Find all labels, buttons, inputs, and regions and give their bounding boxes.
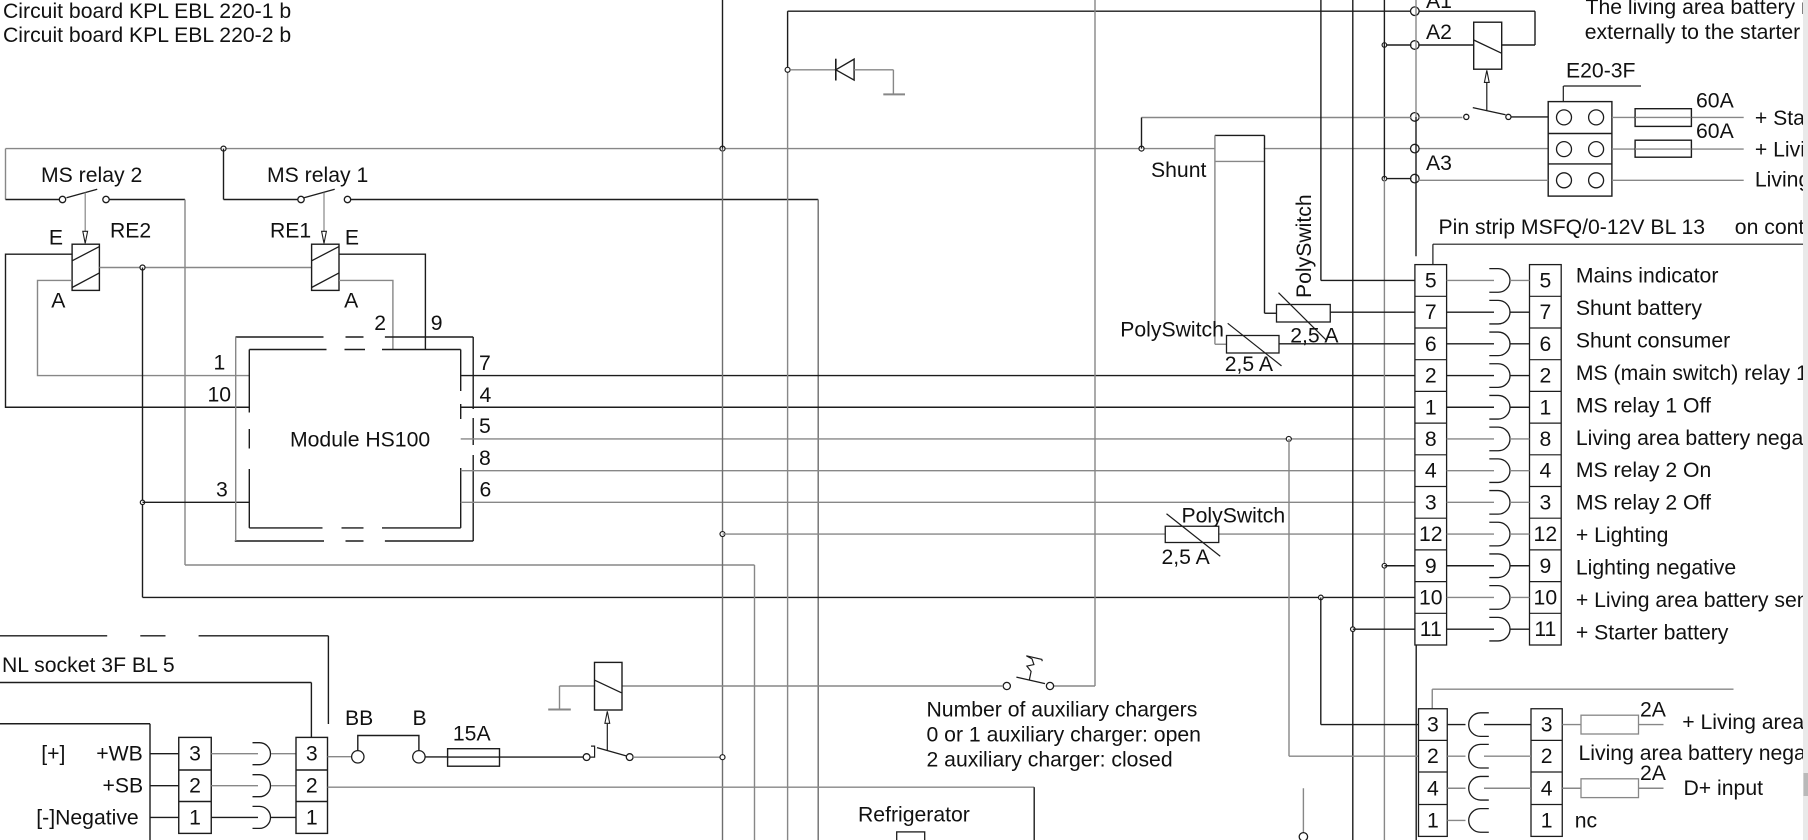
junction diode node [785,67,790,72]
wire: switch to E20 block row1 [1511,116,1548,118]
junction on RE link at x=142.5 [140,265,145,270]
pin strip row 7 connector arc [1489,300,1510,324]
svg-text:A1: A1 [1426,0,1452,13]
switch MS relay 2 blade [67,189,98,198]
wire: NL row to connector arc [211,753,258,755]
switch MS relay 1 left contact [298,196,304,202]
svg-text:9: 9 [1425,555,1437,578]
svg-text:6: 6 [480,478,492,501]
linkage coil K2 to 15A switch [605,711,610,723]
aux chargers switch blade [1016,677,1045,684]
svg-text:A3: A3 [1426,152,1452,175]
svg-text:1: 1 [1541,809,1553,832]
svg-text:[-]Negative: [-]Negative [36,806,138,829]
svg-text:RE2: RE2 [110,220,151,243]
NL connector arc [253,806,271,828]
svg-text:5: 5 [479,415,491,438]
polyswitch PS1 (shunt battery) [1277,305,1331,323]
wire: MS relay 2 output to x=185 [109,199,185,201]
wire: x=142.5 vertical from RE link to row 10 [142,268,144,598]
aux chargers switch right contact [1046,682,1053,689]
E20-3F leader line [1564,85,1642,87]
wire: module pin 5 to pin strip cell 8 (gray) [461,438,1415,440]
svg-text:MS relay 2 Off: MS relay 2 Off [1576,492,1711,515]
bottom connector row 2 arc [1469,744,1489,768]
wire: vertical x=818 down to bottom [817,200,819,840]
svg-text:externally to the starter: externally to the starter [1585,21,1801,44]
disconnect switch right contact [1506,114,1511,119]
svg-text:1: 1 [1539,396,1551,419]
wire: vertical x=754.5 down to bottom (gray) [754,565,756,840]
svg-text:11: 11 [1420,618,1442,641]
svg-text:2: 2 [374,312,386,335]
15A switch left contact [583,754,590,761]
svg-text:RE1: RE1 [270,220,311,243]
junction row12 takeoff on x=722.5 [720,532,725,537]
15A switch blade [597,748,627,756]
pin strip row 8 arc to right cell [1510,438,1530,440]
wire: B to 15A fuse [425,756,448,758]
module outer board box (dashed) [235,337,473,541]
svg-text:Module HS100: Module HS100 [290,429,430,452]
wire: MS relay 2 feed y=199.5 [6,199,60,201]
svg-text:15A: 15A [453,723,492,746]
svg-text:3: 3 [306,743,318,766]
relay RE1 coil box [312,244,339,290]
relay coil K2 (15A circuit) [595,662,623,710]
svg-text:6: 6 [1425,333,1437,356]
wire: vertical x=1352.8 (starter battery) [1352,0,1354,840]
pin strip row 12 connector arc [1489,522,1510,546]
shunt box [1215,134,1265,136]
svg-text:D+ input: D+ input [1684,777,1764,800]
svg-text:4: 4 [1425,460,1437,483]
svg-text:2: 2 [1427,745,1439,768]
svg-text:+ Lighting: + Lighting [1576,524,1668,547]
svg-text:[+]: [+] [41,743,65,766]
NL connector arc [253,743,271,765]
bottom connector row 2 arc-to-cell wire [1484,755,1531,757]
wire: fuse to 15A switch [500,756,584,758]
svg-text:60A: 60A [1696,89,1735,112]
svg-text:10: 10 [208,383,232,406]
pin strip row 11 arc to right cell [1510,628,1530,630]
shunt right leg (black) [1264,135,1266,313]
BB-B jumper bracket [358,736,419,751]
pin strip row 7 arc to right cell [1510,311,1530,313]
NL connector arc [253,775,271,797]
wire: vertical x=787.6 top black segment [787,11,789,70]
svg-text:+SB: +SB [103,775,144,798]
wire: vertical x=722.5 from top to 15A switch [722,0,724,149]
wire: x=1320.8 down to bottom connector cell3 [1320,597,1322,724]
wire: PS2 to cell 6 [1279,343,1415,345]
pin strip row 4 arc to right cell [1510,470,1530,472]
fuse 15A [448,749,500,767]
wire: arc to NL right column [271,753,296,755]
wire: MS relay 1 feed [224,199,298,201]
svg-text:6: 6 [1539,333,1551,356]
pin strip row 2 connector arc [1489,364,1510,388]
NL socket left pin column [179,737,212,833]
svg-text:12: 12 [1534,523,1558,546]
refrigerator fuse stub [897,832,925,840]
svg-text:3: 3 [1427,714,1439,737]
svg-text:5: 5 [1539,269,1551,292]
wire: NL row to connector arc [211,816,258,818]
svg-text:Mains indicator: Mains indicator [1576,264,1719,287]
wire: module pin 6 to pin strip cell 3 (gray) [461,501,1415,503]
svg-text:Circuit board KPL EBL 220-2 b: Circuit board KPL EBL 220-2 b [3,24,291,47]
pin strip row 3 arc to right cell [1510,501,1530,503]
scrollbar track [1803,0,1808,840]
aux chargers switch actuator zigzag [1026,656,1042,680]
svg-text:BB: BB [345,707,373,730]
fuse 2A D+ [1581,779,1639,798]
svg-text:2: 2 [1539,365,1551,388]
wire: bus left drop to MS relay 2 [5,149,7,200]
ground symbol top [883,93,905,95]
wire: block row3 out [1612,179,1744,181]
svg-text:4: 4 [1427,777,1439,800]
NL socket unit box [0,723,150,725]
svg-text:Number of auxiliary chargers: Number of auxiliary chargers [927,698,1198,721]
pin strip row 1 arc to right cell [1510,406,1530,408]
svg-text:NL socket 3F BL 5: NL socket 3F BL 5 [2,654,175,677]
pin strip row 5 arc to right cell [1510,279,1530,281]
svg-text:Living area battery negative: Living area battery negative [1579,742,1808,765]
pin strip right column [1530,265,1562,645]
wire: vertical x=722.5 lower part [722,757,724,840]
switch MS relay 2 left contact [59,196,65,202]
pin strip row 6 connector arc [1489,332,1510,356]
wire: row4 out through 2A fuse [1562,787,1663,789]
wire: module pin 4 to pin strip cell 1 [461,406,1415,408]
wire: RE2-RE1 link (gray) [99,267,311,269]
bottom connector row 3 arc [1469,713,1489,737]
svg-text:3: 3 [216,479,228,502]
polyswitch PS2 (shunt consumer) [1227,336,1280,354]
wire: A3 jumper from x=1384.4 [1384,178,1411,180]
wire: A3 row to block row3 (gray) [1418,179,1548,181]
wire: D+ drop with terminal [1302,788,1304,833]
linkage coil K1 to disconnect switch [1484,70,1489,82]
wire: title leader to cell 5 [1432,244,1434,264]
NL socket dashed top wire [0,635,328,637]
pin strip row 3 connector arc [1489,491,1510,515]
terminal switch row [1411,113,1420,122]
pin strip row 11 connector arc [1489,617,1510,641]
wire: module pin 7 to pin strip cell 2 [461,375,1415,377]
svg-text:8: 8 [1539,428,1551,451]
ground symbol bottom [559,686,561,710]
wire: diode cathode to ground drop [854,69,893,71]
wire: A2 coil wire from terminal [1418,44,1474,46]
pin strip row 9 connector arc [1489,554,1510,578]
pin strip row 4 connector arc [1489,459,1510,483]
switch MS relay 2 right contact [103,196,109,202]
terminal bus row [1411,144,1420,153]
svg-text:7: 7 [1539,301,1551,324]
wire: +SB to NL pin 2 [150,785,179,787]
wire: RE2 E to module pin 10 (black) [6,254,250,407]
terminal A2 [1411,41,1420,50]
junction lighting negative row 9 [1382,563,1387,568]
pin strip row 6 arc to right cell [1510,343,1530,345]
svg-text:+ Starter battery: + Starter battery [1576,622,1729,645]
bottom connector row 4 arc [1469,776,1489,800]
bottom connector top rail (gray) [1432,688,1733,690]
svg-text:Living: Living [1755,169,1808,192]
wire: +SB line to refrigerator (gray) [328,786,1035,788]
terminal A1 [1411,7,1420,16]
relay coil K1 (top right) [1474,22,1502,69]
svg-text:2: 2 [1541,745,1553,768]
svg-text:2: 2 [189,775,201,798]
svg-text:E: E [49,226,63,249]
15A switch right contact [626,754,633,761]
wire: row 10 long horizontal to pin strip cell 10 [143,596,1415,598]
wire: block row1 out to fuse 60A [1612,116,1744,118]
pin strip row 4 wire to arc [1447,470,1494,472]
svg-text:3: 3 [1541,714,1553,737]
svg-text:2: 2 [306,775,318,798]
pin strip row 7 wire to arc [1447,311,1494,313]
svg-text:4: 4 [1541,777,1553,800]
wire: row 12 to polyswitch and cell 12 (gray) [723,533,1415,535]
wire: block row2 out to fuse 60A [1612,148,1744,150]
svg-text:MS relay 1 Off: MS relay 1 Off [1576,394,1711,417]
bottom connector row 2 wire to arc [1447,755,1465,757]
fuse 60A living [1635,140,1691,157]
pin strip row 12 arc to right cell [1510,533,1530,535]
svg-text:Circuit board KPL EBL 220-1 b: Circuit board KPL EBL 220-1 b [3,0,291,23]
pin strip row 1 connector arc [1489,395,1510,419]
junction node on bus at shunt feed 1141.5 [1139,146,1144,151]
diode D1 [835,59,837,81]
svg-text:1: 1 [1425,396,1437,419]
svg-text:11: 11 [1534,618,1556,641]
svg-text:2,5 A: 2,5 A [1225,353,1274,376]
wire: shunt top rail y=117.5 (gray) [1142,117,1412,119]
bottom connector row 4 arc-to-cell wire [1484,787,1531,789]
aux chargers switch left contact [1003,682,1010,689]
BB terminal [352,751,364,763]
wire: bus drop to MS relay 1 [223,149,225,200]
svg-text:1: 1 [1427,809,1439,832]
bottom connector row 1 arc [1469,809,1489,833]
svg-text:8: 8 [479,447,491,470]
wire: terminal column vertical x=1416 top [1415,0,1417,117]
junction at x=722.5 / 15A row [720,755,725,760]
wire: vertical x=1384.4 (A2/A3/lighting negative) [1383,0,1385,179]
pin strip row 5 wire to arc [1447,279,1494,281]
module inner board box (dashed, black) [249,350,460,528]
wire: x=1289.5 down to bottom connector cell2 (gray) [1288,439,1290,756]
pin strip row 10 arc to right cell [1510,596,1530,598]
scrollbar thumb [1804,773,1808,796]
svg-text:A2: A2 [1426,21,1452,44]
bottom connector right column [1531,709,1562,837]
svg-text:4: 4 [480,384,492,407]
wire: y=565 from x=185 to x=754.5 (gray) [185,564,755,566]
NL socket right pin column [296,737,328,833]
wire: +WB to NL pin 3 [150,753,179,755]
wire: NL row to connector arc [211,785,258,787]
bottom connector left column [1419,709,1448,837]
svg-text:3: 3 [189,743,201,766]
svg-text:60A: 60A [1696,120,1735,143]
wire: main +12V bus (gray) y=148.6 [6,148,1216,150]
bottom connector row 1 wire to arc [1447,819,1465,821]
svg-text:Refrigerator: Refrigerator [858,804,970,827]
terminal block E20-3F [1548,102,1612,197]
wire: arc to NL right column [271,785,296,787]
wire: vertical x=185 down to y=565 (gray) [184,200,186,566]
svg-text:10: 10 [1419,586,1443,609]
fuse 2A living area [1581,715,1639,734]
svg-text:nc: nc [1575,810,1598,833]
wire: vertical x=787.6 long gray segment [787,70,789,840]
svg-text:5: 5 [1425,269,1437,292]
wire: row 11 stub [1353,628,1415,630]
junction row 10 on x=1320.8 [1319,595,1324,600]
svg-text:+ Living area battery sensor: + Living area battery sensor [1576,589,1808,612]
svg-text:A: A [51,290,66,313]
wire: negative to NL pin 1 [150,816,179,818]
wire: terminal column vertical x=1416 bottom [1415,645,1417,840]
svg-text:7: 7 [1425,301,1437,324]
svg-text:+ Starter: + Starter [1755,107,1808,130]
wire: NL pin3 to BB [328,756,352,758]
B terminal [413,751,425,763]
pin strip title underline [1433,243,1803,245]
bottom connector row 3 wire to arc [1447,724,1465,726]
pin strip row 5 connector arc [1489,269,1510,293]
pin strip row 3 wire to arc [1447,501,1494,503]
wire: PS1 to cell 7 [1330,311,1415,313]
fuse 60A starter [1635,109,1691,127]
wire: arc to NL right column [271,816,296,818]
pin strip left column [1415,265,1447,645]
svg-text:3: 3 [1539,491,1551,514]
svg-text:MS relay 1: MS relay 1 [267,164,368,187]
pin strip row 11 wire to arc [1447,628,1494,630]
svg-text:PolySwitch: PolySwitch [1182,505,1286,528]
pin strip row 10 connector arc [1489,586,1510,610]
svg-text:9: 9 [1539,555,1551,578]
junction row 11 on x=1352.8 [1351,627,1356,632]
wire: RE1 E to module pin 9 (black) [339,254,425,349]
svg-text:+ Living area: + Living area [1682,711,1804,734]
linkage MS relay 2 to RE2 [84,193,86,232]
switch MS relay 1 right contact [344,196,350,202]
wire: module pin 3 stub [143,501,250,503]
svg-text:1: 1 [306,806,318,829]
15A switch actuator [590,746,595,757]
svg-text:2A: 2A [1640,698,1667,721]
wire: cell5 feed from x=1320.9 [1320,0,1322,280]
wire: y=11 link from diode junction to A1 [788,10,1412,12]
NL socket wire y=682.5 [0,682,311,684]
wire: MS relay 1 output to x=818 [351,199,819,201]
svg-text:4: 4 [1539,460,1551,483]
polyswitch PS3 (+lighting) [1165,526,1219,542]
switch MS relay 1 blade [304,189,335,198]
pin strip row 9 wire to arc [1447,565,1494,567]
relay RE2 coil box [72,244,99,290]
svg-text:on controller board: on controller board [1735,216,1808,239]
pin strip row 2 arc to right cell [1510,375,1530,377]
wire: stub x=328.4 down [327,636,329,724]
svg-text:PolySwitch: PolySwitch [1120,318,1224,341]
refrigerator box right edge [1033,787,1035,840]
terminal A3 [1411,174,1420,183]
wire: 15A switch to x=722.5 (gray) [633,756,720,758]
wire: ground wire to coil K2 [560,685,595,687]
svg-text:A: A [344,289,359,312]
svg-text:7: 7 [479,352,491,375]
svg-text:MS (main switch) relay 1 On: MS (main switch) relay 1 On [1576,362,1808,385]
bottom connector row 3 arc-to-cell wire [1484,724,1531,726]
pin strip row 10 wire to arc [1447,596,1494,598]
pin strip row 8 wire to arc [1447,438,1494,440]
svg-text:+ Living: + Living [1755,139,1808,162]
svg-text:2 auxiliary charger: closed: 2 auxiliary charger: closed [927,748,1173,771]
svg-text:B: B [413,707,427,730]
svg-text:MS relay 2: MS relay 2 [41,164,142,187]
pin strip row 12 wire to arc [1447,533,1494,535]
wire: row 9 stub to cell 9 [1384,565,1415,567]
svg-text:1: 1 [189,806,201,829]
svg-text:10: 10 [1534,586,1558,609]
svg-text:E20-3F: E20-3F [1566,60,1636,83]
junction node on bus at vertical 722.5 [720,146,725,151]
svg-text:Shunt: Shunt [1151,159,1206,182]
wire: aux switch to x=1095 [1054,685,1095,687]
svg-text:Shunt battery: Shunt battery [1576,297,1702,320]
wire: row3 out through 2A fuse [1562,724,1663,726]
svg-text:+WB: +WB [96,743,143,766]
svg-text:3: 3 [1425,491,1437,514]
pin strip row 8 connector arc [1489,427,1510,451]
pin strip row 6 wire to arc [1447,343,1494,345]
junction node on bus at MS relay 1 branch [221,146,226,151]
svg-text:Lighting negative: Lighting negative [1576,557,1736,580]
junction circle at module pin 3 branch [140,500,144,504]
junction on pin5 wire feeding bottom connector cell 2 [1286,436,1291,441]
wire: diode anode wire [790,69,836,71]
svg-text:MS relay 2 On: MS relay 2 On [1576,459,1711,482]
svg-text:Shunt consumer: Shunt consumer [1576,329,1730,352]
wire: vertical x=1095 (gray) [1094,0,1096,686]
pin strip row 2 wire to arc [1447,375,1494,377]
disconnect switch left contact [1464,114,1469,119]
wire: RE2 A to module pin 1 (gray) [38,280,250,375]
svg-text:Living area battery negative: Living area battery negative [1576,427,1808,450]
svg-text:1: 1 [214,352,226,375]
module outer board box left edge (gray) [235,337,237,541]
svg-text:8: 8 [1425,428,1437,451]
svg-text:2,5 A: 2,5 A [1162,546,1211,569]
svg-text:12: 12 [1419,523,1443,546]
wire: shunt rail stub into bus [1141,118,1143,149]
svg-text:Pin strip MSFQ/0-12V BL 13: Pin strip MSFQ/0-12V BL 13 [1439,216,1706,239]
svg-text:0 or 1 auxiliary charger: open: 0 or 1 auxiliary charger: open [927,723,1201,746]
shunt left leg (gray) [1214,135,1216,344]
wire: RE1 A to module pin 2 (gray) [339,280,393,349]
wire: module pin 8 to pin strip cell 4 (gray) [461,470,1415,472]
